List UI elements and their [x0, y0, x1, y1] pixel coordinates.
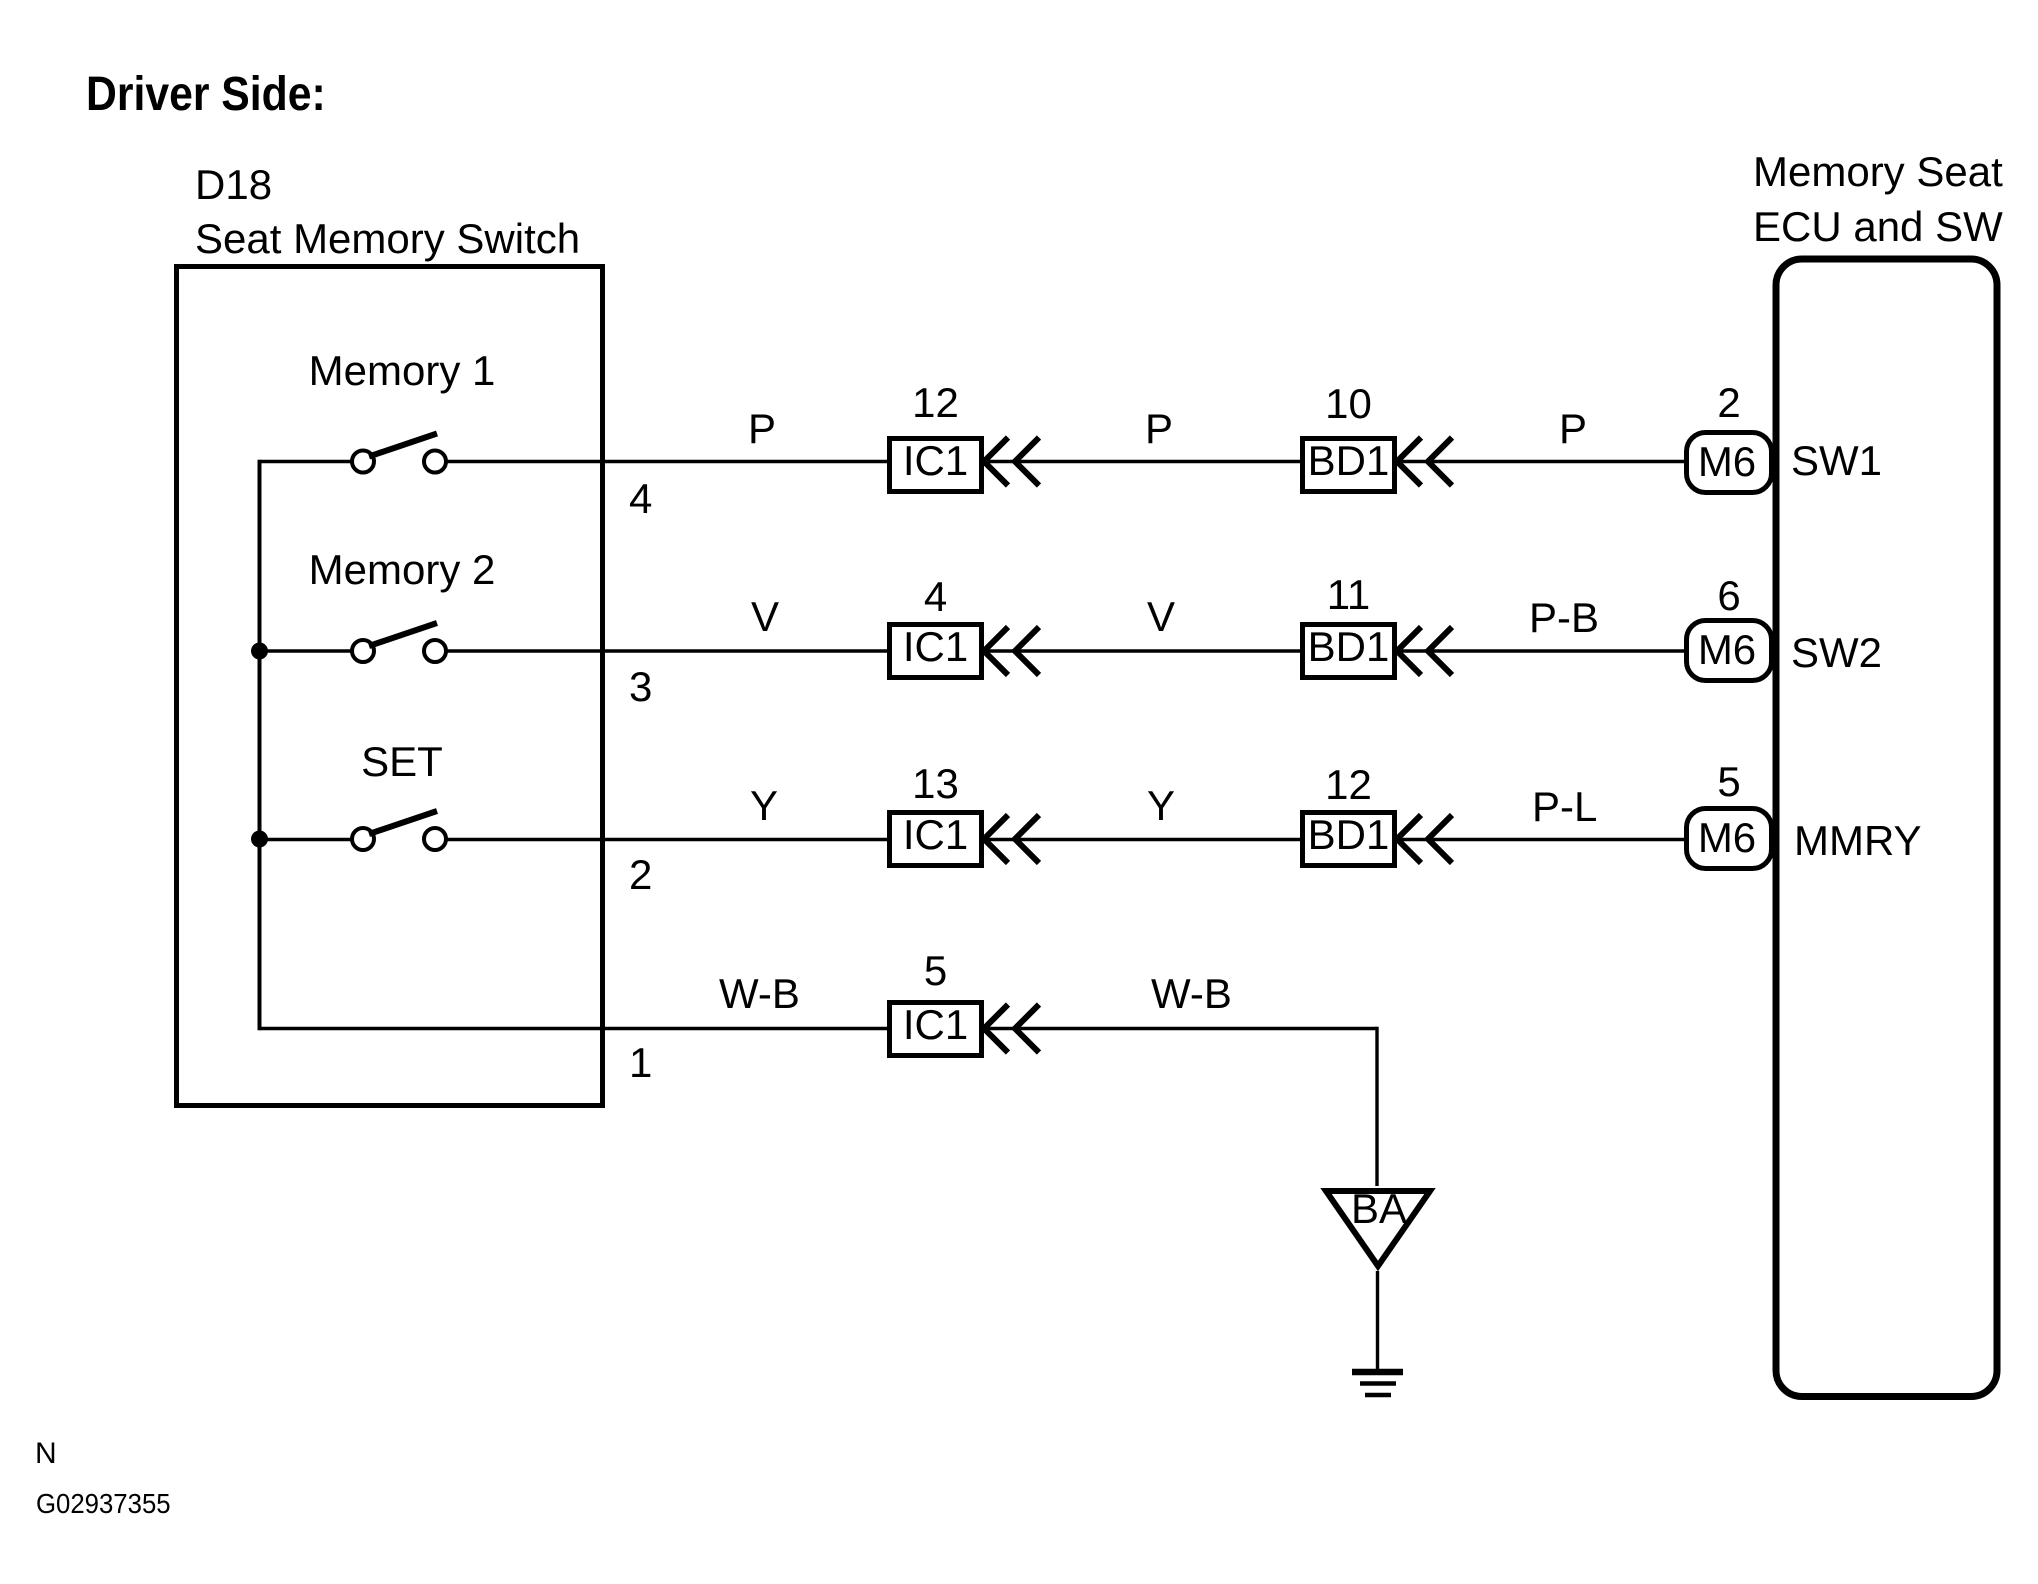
svg-text:SW2: SW2 [1791, 629, 1882, 676]
svg-text:Memory 1: Memory 1 [309, 347, 496, 394]
wire row4 IC1 to corner [982, 1027, 1377, 1030]
svg-text:P-L: P-L [1532, 783, 1597, 830]
svg-text:ECU and SW: ECU and SW [1753, 203, 2003, 250]
svg-text:2: 2 [1717, 379, 1740, 426]
chevron arrows IC1 row4 [984, 1005, 1039, 1053]
wire row1 switch feed [260, 460, 353, 463]
svg-text:BD1: BD1 [1308, 437, 1390, 484]
svg-text:P: P [1559, 405, 1587, 452]
connector D18 name label [195, 161, 580, 262]
chevron arrows BD1 row1 [1397, 438, 1452, 486]
junction dot Memory 2 [251, 643, 268, 660]
svg-text:Y: Y [750, 782, 778, 829]
ground symbol [1352, 1372, 1403, 1395]
svg-text:1: 1 [629, 1039, 652, 1086]
svg-text:11: 11 [1327, 571, 1371, 618]
wire row1 BD1 to M6 [1395, 460, 1688, 463]
battery BA triangle [1326, 1185, 1430, 1266]
junction connector IC1 row2 [890, 623, 982, 678]
wire row4 ground feed [260, 1027, 890, 1030]
junction connector BD1 row2 [1303, 623, 1395, 678]
svg-text:P: P [748, 405, 776, 452]
svg-text:3: 3 [629, 663, 652, 710]
svg-text:5: 5 [924, 947, 947, 994]
junction connector BD1 row1 [1303, 437, 1395, 492]
svg-text:IC1: IC1 [903, 1001, 968, 1048]
wire row2 BD1 to M6 [1395, 649, 1688, 652]
svg-text:IC1: IC1 [903, 437, 968, 484]
svg-text:13: 13 [912, 760, 959, 807]
chevron arrows IC1 row2 [984, 627, 1039, 675]
chevron arrows BD1 row2 [1397, 627, 1452, 675]
figure number G02937355 [36, 1488, 171, 1519]
svg-text:12: 12 [1325, 761, 1372, 808]
svg-text:N: N [35, 1437, 57, 1470]
svg-text:P: P [1145, 405, 1173, 452]
svg-text:M6: M6 [1698, 438, 1756, 485]
switch Memory 2 [352, 623, 446, 662]
wire row3 switch feed [260, 838, 353, 841]
svg-text:6: 6 [1717, 572, 1740, 619]
wire row3 to IC1 [446, 838, 889, 841]
svg-text:4: 4 [924, 573, 947, 620]
wire battery to ground [1376, 1271, 1379, 1370]
svg-text:MMRY: MMRY [1794, 817, 1922, 864]
svg-text:Driver Side:: Driver Side: [86, 67, 326, 121]
svg-text:BA: BA [1351, 1185, 1407, 1232]
svg-text:IC1: IC1 [903, 623, 968, 670]
svg-text:P-B: P-B [1529, 594, 1599, 641]
svg-text:M6: M6 [1698, 814, 1756, 861]
wire row2 to IC1 [446, 649, 889, 652]
wire row3 IC1 to BD1 [982, 838, 1302, 841]
wire row4 drop to battery [1375, 1027, 1378, 1186]
svg-text:2: 2 [629, 851, 652, 898]
svg-text:G02937355: G02937355 [36, 1488, 171, 1519]
svg-text:D18: D18 [195, 161, 272, 208]
svg-text:W-B: W-B [719, 970, 800, 1017]
label Memory Seat ECU and SW [1753, 148, 2003, 250]
svg-text:BD1: BD1 [1308, 811, 1390, 858]
wire common bus vertical [258, 460, 262, 1030]
svg-text:SET: SET [361, 738, 443, 785]
wire row1 IC1 to BD1 [982, 460, 1302, 463]
svg-text:W-B: W-B [1151, 970, 1232, 1017]
svg-text:Memory 2: Memory 2 [309, 546, 496, 593]
junction connector IC1 row3 [890, 811, 982, 866]
svg-text:Y: Y [1147, 782, 1175, 829]
connector M6 SW1 [1687, 433, 1772, 493]
svg-text:Memory Seat: Memory Seat [1753, 148, 2003, 195]
connector M6 MMRY [1687, 809, 1772, 869]
junction connector BD1 row3 [1303, 811, 1395, 866]
wire row2 IC1 to BD1 [982, 649, 1302, 652]
svg-text:V: V [1147, 593, 1175, 640]
title Driver Side [86, 67, 326, 121]
svg-text:Seat Memory Switch: Seat Memory Switch [195, 215, 580, 262]
svg-text:5: 5 [1717, 758, 1740, 805]
junction connector IC1 row1 [890, 437, 982, 492]
switch SET [352, 811, 446, 850]
ECU box Memory Seat ECU and SW [1776, 259, 1997, 1397]
switch Memory 1 [352, 434, 446, 473]
chevron arrows BD1 row3 [1397, 815, 1452, 863]
svg-text:IC1: IC1 [903, 811, 968, 858]
chevron arrows IC1 row3 [984, 815, 1039, 863]
chevron arrows IC1 row1 [984, 438, 1039, 486]
svg-text:12: 12 [912, 379, 959, 426]
junction connector IC1 row4 [890, 1001, 982, 1056]
svg-text:10: 10 [1325, 380, 1372, 427]
wire row3 BD1 to M6 [1395, 838, 1688, 841]
wire row2 switch feed [260, 649, 353, 652]
svg-text:SW1: SW1 [1791, 437, 1882, 484]
junction dot SET [251, 831, 268, 848]
connector M6 SW2 [1687, 621, 1772, 681]
svg-text:4: 4 [629, 475, 652, 522]
svg-text:M6: M6 [1698, 626, 1756, 673]
switch box D18 [177, 267, 603, 1106]
svg-text:BD1: BD1 [1308, 623, 1390, 670]
svg-text:V: V [751, 593, 779, 640]
wire row1 to IC1 [446, 460, 889, 463]
